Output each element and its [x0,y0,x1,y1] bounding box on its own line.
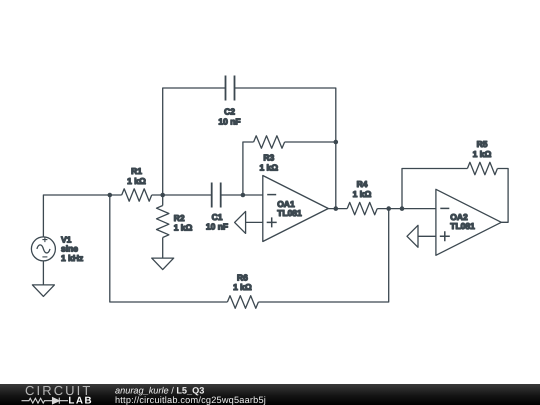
wire R2 to ground [162,238,164,259]
junction dot R6 right tap [386,206,391,211]
svg-text:1 kΩ: 1 kΩ [259,162,278,172]
capacitor C2 [218,76,240,127]
node A junction dot [160,193,165,198]
footer credit line 1: anurag_kurle / L5_Q3 [115,385,204,395]
wire C1 to OA1 inverting input [221,194,263,196]
svg-text:R4: R4 [357,179,368,189]
svg-text:R1: R1 [131,166,142,176]
svg-text:R5: R5 [477,139,488,149]
resistor R4 [347,179,377,215]
ground arrow at OA1 non-inverting input [235,211,263,233]
wire OA1 output to R4 [328,208,347,210]
wire R6 loop left side [110,195,228,302]
resistor R3 [254,136,285,173]
ground (below V1) [32,285,54,297]
op-amp OA1 [263,176,329,242]
wire R6 loop right side [258,209,388,302]
svg-text:1 kHz: 1 kHz [61,253,83,263]
svg-text:1 kΩ: 1 kΩ [233,282,252,292]
wire V1 to ground [42,261,44,285]
ground (below R2) [152,258,174,270]
wire node B up to R3 [243,142,254,195]
svg-text:LAB: LAB [68,395,93,405]
svg-text:R3: R3 [263,153,274,163]
svg-text:R6: R6 [237,273,248,283]
CircuitLab logo wordmark LAB [68,395,93,405]
svg-text:10 nF: 10 nF [206,222,228,232]
wire R3 right lead [285,141,336,143]
svg-text:http://circuitlab.com/cg25wq5a: http://circuitlab.com/cg25wq5aarb5j [115,395,266,405]
OA1 output node junction dot [334,206,339,211]
wire V1 top lead to R1 [43,195,121,237]
svg-text:C1: C1 [212,212,223,222]
op-amp OA2 [436,189,501,255]
wire R2 top lead [162,195,164,206]
ground arrow at OA2 non-inverting input [407,225,436,247]
wire R4 to OA2 inverting input [377,208,436,210]
node B junction dot [241,193,246,198]
resistor R6 [227,273,258,309]
voltage source V1 [31,235,83,263]
CircuitLab logo wordmark CIRCUIT [25,383,92,398]
svg-text:1 kΩ: 1 kΩ [174,222,193,232]
wire R5 branch left [402,169,467,209]
capacitor C1 [206,183,228,232]
svg-text:1 kΩ: 1 kΩ [353,189,372,199]
resistor R2 [157,206,193,238]
svg-text:1 kΩ: 1 kΩ [127,176,146,186]
junction dot R5 tap [400,206,405,211]
resistor R5 [467,139,497,175]
wire node A up and over to C2 [163,88,226,195]
wire R1 to C1 [152,194,212,196]
footer credit line 2: url [115,395,266,405]
svg-text:C2: C2 [224,107,235,117]
CircuitLab logo schematic: wire, resistor zigzag, diode [22,398,69,404]
resistor R1 [122,166,152,201]
wire C2 right down to OA1 output node [235,88,336,209]
wire R5 right down to OA2 output [497,169,508,223]
svg-text:TL081: TL081 [277,208,302,218]
svg-text:TL081: TL081 [450,221,475,231]
svg-text:1 kΩ: 1 kΩ [473,149,492,159]
junction dot R3/C2 feedback [334,140,339,145]
svg-text:10 nF: 10 nF [218,117,240,127]
junction dot (R6 tap on input node) [108,193,113,198]
